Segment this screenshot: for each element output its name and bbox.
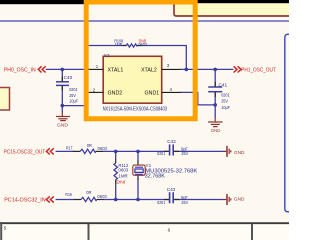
svg-text:1MR: 1MR	[118, 174, 128, 179]
svg-text:GND: GND	[211, 128, 221, 134]
svg-text:25V: 25V	[181, 200, 189, 205]
svg-text:GND2: GND2	[108, 91, 123, 97]
svg-text:GND: GND	[57, 123, 69, 129]
svg-text:0201: 0201	[69, 87, 78, 92]
svg-text:C40: C40	[64, 75, 73, 80]
svg-text:10µF: 10µF	[69, 98, 78, 103]
svg-text:0201: 0201	[157, 200, 166, 205]
svg-text:C43: C43	[167, 187, 176, 192]
svg-text:25V: 25V	[221, 99, 228, 104]
svg-text:XTAL2: XTAL2	[141, 68, 157, 74]
svg-text:NX16125A-50M-EXS00A-CS08403: NX16125A-50M-EXS00A-CS08403	[103, 106, 168, 112]
svg-text:PC15-OSC32_OUT: PC15-OSC32_OUT	[4, 149, 46, 155]
svg-text:0R: 0R	[87, 143, 93, 148]
svg-text:0201: 0201	[157, 151, 166, 156]
svg-text:R17: R17	[66, 146, 73, 151]
svg-text:0603: 0603	[118, 167, 128, 172]
svg-text:PC14-OSC32_IN: PC14-OSC32_IN	[4, 197, 46, 203]
svg-text:25V: 25V	[69, 93, 76, 98]
svg-text:6: 6	[168, 227, 171, 232]
svg-text:GND: GND	[234, 197, 245, 203]
svg-text:XTAL1: XTAL1	[108, 68, 124, 74]
svg-text:Y2: Y2	[104, 53, 110, 58]
svg-text:PH0_OSC_IN: PH0_OSC_IN	[4, 67, 36, 73]
svg-text:DNI: DNI	[116, 179, 125, 184]
svg-text:GND: GND	[234, 150, 245, 156]
svg-text:1MR: 1MR	[115, 42, 123, 47]
svg-text:0R: 0R	[86, 190, 92, 195]
svg-text:C41: C41	[219, 82, 228, 87]
svg-text:C42: C42	[167, 139, 176, 144]
svg-text:32.768K: 32.768K	[145, 173, 165, 179]
svg-text:25V: 25V	[181, 151, 189, 156]
svg-text:R19: R19	[65, 192, 72, 197]
svg-text:0603: 0603	[97, 194, 107, 199]
svg-text:DNB: DNB	[139, 39, 147, 44]
svg-text:10µF: 10µF	[221, 105, 230, 110]
svg-text:PH1_OSC_OUT: PH1_OSC_OUT	[241, 67, 276, 73]
svg-text:GND1: GND1	[145, 91, 160, 97]
svg-text:0201: 0201	[221, 92, 230, 97]
svg-text:0603: 0603	[98, 146, 108, 151]
